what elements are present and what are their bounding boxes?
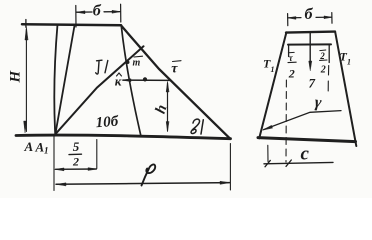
svg-text:10б: 10б <box>95 114 119 132</box>
svg-text:c: c <box>301 144 310 165</box>
svg-text:б: б <box>93 3 102 20</box>
svg-text:2: 2 <box>319 51 325 61</box>
svg-text:7: 7 <box>309 76 316 91</box>
svg-text:А: А <box>35 140 45 155</box>
svg-text:к: к <box>115 74 122 89</box>
svg-text:5: 5 <box>73 139 80 154</box>
svg-text:б: б <box>305 6 314 23</box>
svg-text:γ: γ <box>314 94 323 112</box>
svg-text:А: А <box>24 139 34 154</box>
svg-text:1: 1 <box>347 58 351 67</box>
svg-text:2: 2 <box>288 67 295 81</box>
svg-text:2: 2 <box>72 155 79 169</box>
svg-text:1: 1 <box>271 65 275 74</box>
svg-text:2: 2 <box>320 65 326 76</box>
svg-text:H: H <box>8 70 24 84</box>
svg-text:τ: τ <box>289 53 294 63</box>
svg-text:τ: τ <box>171 61 178 76</box>
svg-text:1: 1 <box>44 146 49 156</box>
svg-text:m: m <box>133 58 141 69</box>
